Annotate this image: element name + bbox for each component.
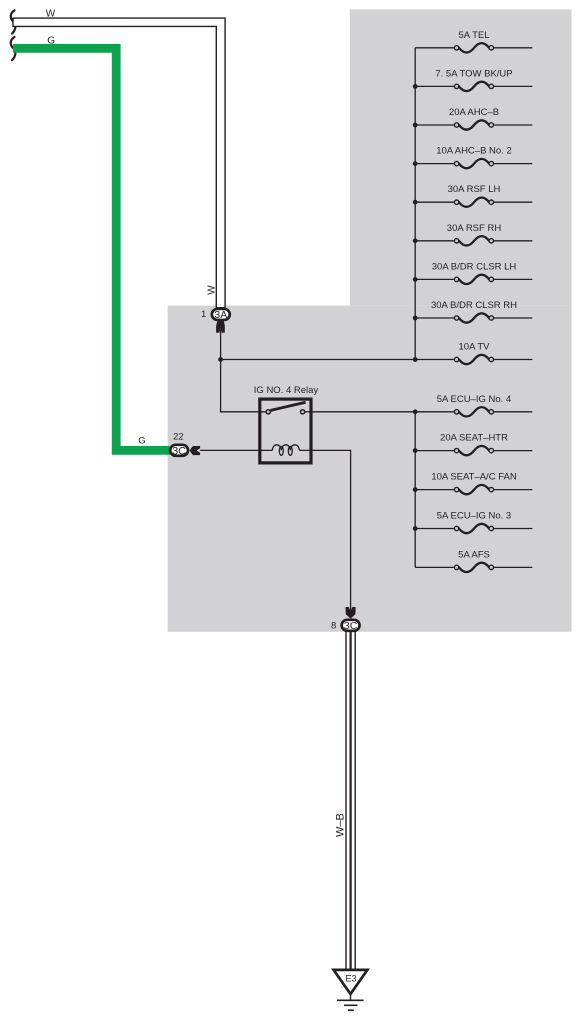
svg-text:5A AFS: 5A AFS <box>458 549 490 560</box>
svg-text:30A RSF LH: 30A RSF LH <box>448 184 501 195</box>
fuse box shading lower block <box>168 306 572 632</box>
ground E3 triangle <box>334 970 368 994</box>
break symbol G wire <box>11 37 16 60</box>
svg-text:30A B/DR CLSR LH: 30A B/DR CLSR LH <box>432 261 517 272</box>
svg-text:G: G <box>138 436 145 447</box>
svg-text:G: G <box>47 35 55 46</box>
fuse 30A RSF LH <box>415 184 532 207</box>
svg-text:10A AHC–B No. 2: 10A AHC–B No. 2 <box>436 146 512 157</box>
svg-text:3C: 3C <box>344 620 358 632</box>
wire branch to 10A TV fuse <box>221 359 455 361</box>
fuse 7. 5A TOW BK/UP <box>415 68 532 91</box>
junction node <box>218 357 223 362</box>
svg-text:22: 22 <box>173 432 184 443</box>
svg-text:W: W <box>207 285 218 295</box>
relay coil lead left <box>200 449 272 451</box>
svg-text:20A AHC–B: 20A AHC–B <box>449 107 499 118</box>
svg-text:30A B/DR CLSR RH: 30A B/DR CLSR RH <box>431 300 517 311</box>
terminal arrow down above 3C pin 8 <box>346 607 356 619</box>
fuse 20A SEAT–HTR <box>415 433 532 456</box>
relay contact right stub <box>305 411 312 413</box>
fuse 10A AHC–B No. 2 <box>415 146 532 169</box>
svg-text:3C: 3C <box>172 445 186 457</box>
svg-text:IG NO. 4 Relay: IG NO. 4 Relay <box>254 385 319 396</box>
fuse 30A B/DR CLSR RH <box>415 300 532 323</box>
fuse 10A SEAT–A/C FAN <box>415 472 532 495</box>
svg-text:30A RSF RH: 30A RSF RH <box>447 223 502 234</box>
svg-text:5A ECU–IG No. 3: 5A ECU–IG No. 3 <box>437 511 511 522</box>
relay contact left terminal <box>266 410 270 414</box>
fuse 5A AFS <box>415 549 532 572</box>
ground hatch lines <box>337 1000 364 1010</box>
relay coil <box>272 445 299 455</box>
svg-text:3A: 3A <box>214 309 227 321</box>
fuse 5A ECU–IG No. 4 <box>311 394 532 417</box>
fuse box shading upper block <box>350 9 572 305</box>
svg-text:7. 5A TOW BK/UP: 7. 5A TOW BK/UP <box>435 68 512 79</box>
ground stem <box>350 994 352 1000</box>
fuse bus lower vertical wire <box>414 412 416 568</box>
svg-text:W–B: W–B <box>335 813 347 837</box>
connector 3C pin 22 <box>170 445 188 458</box>
svg-text:10A TV: 10A TV <box>459 342 491 353</box>
svg-text:E3: E3 <box>345 974 356 984</box>
svg-text:20A SEAT–HTR: 20A SEAT–HTR <box>440 433 508 444</box>
connector 3A pin 1 <box>212 309 230 321</box>
fuse 30A RSF RH <box>415 223 532 246</box>
fuse 20A AHC–B <box>415 107 532 130</box>
break symbol W wire <box>11 10 16 33</box>
fuse 5A TEL <box>415 30 532 53</box>
relay IG NO. 4 box <box>260 399 311 463</box>
fuse bus upper vertical wire <box>414 48 416 360</box>
svg-text:5A ECU–IG No. 4: 5A ECU–IG No. 4 <box>437 394 511 405</box>
fuse 30A B/DR CLSR LH <box>415 261 532 284</box>
wire W-B (white with black stripe) to ground <box>346 631 355 968</box>
svg-text:1: 1 <box>201 309 206 320</box>
terminal arrow pointing left <box>190 446 201 455</box>
terminal arrow up below 3A <box>216 321 225 333</box>
connector 3C pin 8 <box>342 620 360 632</box>
wire G (green) from break to connector 3C pin 22 <box>13 48 170 450</box>
fuse 5A ECU–IG No. 3 <box>415 511 532 534</box>
bus junction dots lower <box>413 409 418 530</box>
svg-text:8: 8 <box>331 620 336 631</box>
wire W (white) from break to connector 3A <box>13 18 225 308</box>
svg-text:10A SEAT–A/C FAN: 10A SEAT–A/C FAN <box>431 472 517 483</box>
wire from connector 3A to junction and relay contact <box>221 329 267 412</box>
relay contact right terminal <box>301 410 305 414</box>
bus junction dots upper <box>413 84 418 362</box>
svg-text:5A TEL: 5A TEL <box>459 30 490 41</box>
fuse 10A TV <box>454 342 532 365</box>
relay contact blade <box>271 402 306 410</box>
wire from relay coil to connector 3C pin 8 <box>299 450 350 611</box>
svg-text:W: W <box>46 9 56 20</box>
